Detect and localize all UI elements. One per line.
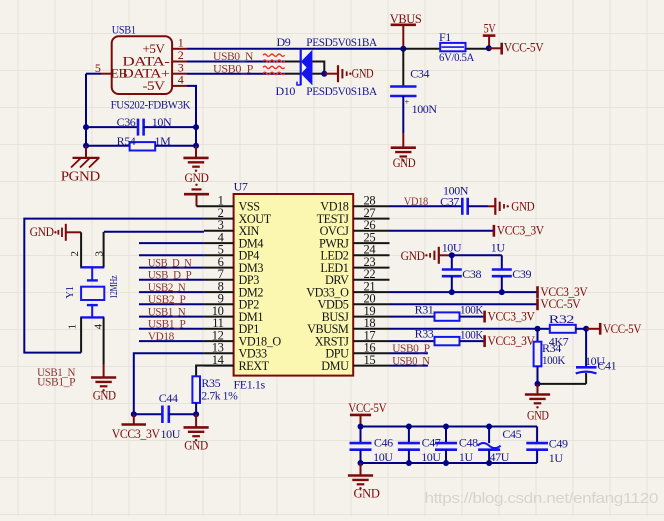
svg-text:VCC3_3V: VCC3_3V — [497, 223, 545, 238]
power VBUS — [390, 11, 422, 49]
svg-text:4: 4 — [178, 73, 184, 87]
junction bottom rail x408.9 — [406, 460, 412, 466]
fuse F1 6V/0.5A — [439, 30, 475, 64]
svg-text:U7: U7 — [234, 180, 248, 194]
svg-text:1U: 1U — [459, 450, 474, 464]
svg-text:C41: C41 — [597, 359, 616, 373]
svg-text:GND: GND — [401, 248, 425, 263]
net label USB1_N floating — [37, 365, 76, 379]
wire DP4 pin5 — [139, 254, 204, 256]
svg-text:GND: GND — [93, 387, 116, 402]
U7 pin 11 DP1 — [204, 316, 259, 336]
wire and net label VD18 — [139, 329, 204, 343]
chassis ground PGND — [61, 146, 101, 184]
U7 pin 17 XRSTJ — [315, 328, 390, 348]
svg-text:2: 2 — [69, 251, 81, 256]
junction C38 bottom — [449, 289, 455, 295]
wire VSS pin1 to ground — [197, 205, 234, 207]
net label USB0_N — [213, 49, 254, 63]
diode D9 PESD5V0S1BA — [277, 35, 378, 74]
op-amp U7 FE1.1s body — [234, 180, 354, 392]
capacitor C45 47U — [478, 427, 522, 464]
U7 pin 23 LED1 — [320, 255, 389, 275]
wire USB1 pin5 to left rail — [86, 74, 101, 146]
diode D10 PESD5V0S1BA — [276, 62, 378, 98]
svg-text:C48: C48 — [459, 436, 478, 450]
capacitor C48 1U — [435, 427, 478, 464]
svg-text:VCC-5V: VCC-5V — [504, 39, 544, 54]
svg-text:C36: C36 — [117, 115, 136, 129]
svg-text:GND: GND — [527, 407, 549, 422]
ground GND left of crystal — [30, 224, 82, 241]
U7 pin 1 VSS — [218, 194, 261, 214]
wire and net label USB_D_P — [139, 268, 204, 282]
junction C44 left — [131, 411, 137, 417]
svg-text:C34: C34 — [410, 66, 429, 80]
junction C38 top — [449, 252, 455, 258]
power port VCC3_3V pin19 — [485, 308, 536, 323]
ground GND below R34 — [525, 384, 550, 423]
U7 pin 27 TESTJ — [317, 206, 390, 226]
net label USB0_N pin15 — [392, 353, 430, 367]
wire cap bank bottom rail — [361, 462, 538, 464]
wire fuse F1 to 5V junction — [466, 48, 489, 50]
svg-text:FE1.1s: FE1.1s — [234, 378, 266, 392]
capacitor C34 100N — [390, 49, 437, 133]
svg-text:GND: GND — [393, 155, 416, 170]
svg-text:4: 4 — [93, 324, 105, 330]
ground GND right of C37 — [488, 198, 534, 215]
svg-text:C39: C39 — [512, 267, 531, 281]
wire USB0_P from USB1 pin3 to D10 — [187, 73, 301, 75]
resistor R35 2.7k 1% — [192, 376, 237, 414]
junction 5V node — [486, 45, 492, 51]
wire +5V rail from USB1 pin1 to VBUS junction — [187, 48, 403, 50]
watermark — [425, 490, 659, 507]
ground GND below C34 — [391, 133, 416, 170]
U7 pin 19 BUSJ — [322, 304, 390, 324]
svg-text:1: 1 — [66, 324, 78, 329]
svg-text:GND: GND — [30, 224, 54, 239]
wire USB0_N from USB1 pin2 to D9 — [187, 61, 301, 63]
svg-text:10U: 10U — [421, 450, 441, 464]
junction C44 right — [193, 411, 199, 417]
svg-text:15: 15 — [364, 353, 376, 367]
wire VD33 pin13 to C44 — [134, 353, 204, 414]
capacitor C39 1U — [491, 240, 532, 292]
svg-text:1U: 1U — [491, 240, 506, 254]
junction top rail x408.9 — [406, 424, 412, 430]
USB1 pin 2 (DATA-) — [172, 48, 187, 62]
ground GND inverted above U7 VSS — [184, 184, 209, 207]
wire pin18 VBUSM to R32 node — [390, 328, 538, 330]
U7 pin 24 LED2 — [320, 243, 389, 263]
capacitor C38 10U — [442, 240, 482, 292]
wire pin15 DMU — [390, 365, 428, 367]
junction R54 right — [193, 143, 199, 149]
capacitor C47 10U — [398, 427, 442, 464]
power VCC-5V cap bank — [348, 400, 387, 427]
svg-text:6V/0.5A: 6V/0.5A — [439, 50, 475, 64]
U7 pin 28 VD18 — [320, 194, 389, 214]
U7 pin 14 REXT — [204, 353, 270, 373]
junction R32 right node — [583, 326, 589, 332]
svg-text:10U: 10U — [373, 450, 393, 464]
ground GND right of diodes — [324, 65, 373, 82]
resistor R54 1M — [86, 134, 196, 151]
wire pin26 to VCC3_3V port — [390, 230, 494, 232]
svg-text:-5V: -5V — [143, 78, 166, 93]
resistor R32 4K7 — [538, 312, 587, 349]
U7 pin 20 VDD5 — [318, 292, 390, 312]
wire GND rail to C39 top — [452, 255, 502, 269]
U7 pin 7 DP3 — [204, 267, 259, 287]
power port VCC-5V pin20 — [538, 296, 582, 311]
svg-text:USB1_P: USB1_P — [37, 375, 76, 389]
wire D10 anode to GND — [312, 73, 324, 75]
power port VCC3_3V pin21 — [538, 284, 589, 299]
USB1 pin 3 (DATA+) — [172, 60, 187, 74]
svg-text:USB1: USB1 — [112, 23, 136, 37]
ground GND below right rail — [183, 146, 208, 185]
svg-text:3: 3 — [94, 251, 106, 257]
junction bottom rail x446 — [443, 460, 449, 466]
junction top rail x360.5 — [358, 424, 364, 430]
junction R32 left node — [535, 326, 541, 332]
svg-text:VD18: VD18 — [148, 329, 174, 343]
capacitor C49 1U — [526, 427, 568, 465]
ground GND below crystal — [91, 365, 116, 403]
svg-text:1U: 1U — [549, 451, 564, 465]
svg-text:10U: 10U — [161, 427, 181, 441]
wire and net label USB_D_N — [139, 255, 204, 269]
diode common cathode bar — [297, 49, 301, 85]
U7 pin 25 PWRJ — [319, 230, 390, 250]
U7 pin 22 DRV — [325, 267, 390, 287]
ERC marker on USB0_P — [263, 66, 285, 74]
svg-text:VCC-5V: VCC-5V — [540, 296, 581, 311]
svg-text:PESD5V0S1BA: PESD5V0S1BA — [306, 84, 377, 98]
U7 pin 13 VD33 — [204, 341, 267, 361]
wire VBUS junction to fuse F1 — [403, 48, 440, 50]
svg-text:100K: 100K — [460, 328, 484, 342]
capacitor C37 100N — [440, 183, 488, 214]
svg-text:D9: D9 — [277, 35, 291, 49]
wire pin20 to VCC-5V port — [390, 303, 538, 305]
USB1 pin 5 (shield) — [95, 61, 112, 75]
U7 pin 5 DP4 — [204, 243, 259, 263]
wire pin16 DPU — [390, 352, 428, 354]
junction bottom rail x489.1 — [486, 460, 492, 466]
junction bottom rail x360.5 — [358, 460, 364, 466]
crystal Y1 12MHz — [65, 267, 120, 317]
net label VD18 — [404, 194, 428, 208]
U7 pin 16 DPU — [325, 341, 389, 361]
svg-text:PGND: PGND — [61, 169, 101, 184]
svg-text:PESD5V0S1BA: PESD5V0S1BA — [306, 35, 377, 49]
ERC marker on USB0_N — [263, 54, 285, 62]
junction C36 right — [193, 124, 199, 130]
ground GND below R35 — [184, 414, 209, 452]
wire and net label USB2_N — [139, 280, 204, 294]
svg-text:R32: R32 — [549, 312, 575, 326]
wire and net label USB2_P — [139, 292, 204, 306]
junction VBUS node — [400, 46, 406, 52]
U7 pin 3 XIN — [204, 218, 260, 238]
power port VCC-5V top — [489, 39, 544, 54]
wire VD18 pin28 to C37 — [390, 205, 463, 207]
power port VCC3_3V pin17 — [485, 333, 536, 348]
wire C41 bottom to R34 bottom — [538, 383, 587, 385]
U7 pin 21 VD33_O — [306, 279, 389, 299]
resistor R34 100K — [534, 329, 566, 384]
wire REXT pin14 to R35 — [196, 366, 234, 377]
junction top rail x489.1 — [486, 424, 492, 430]
junction top rail x446 — [443, 424, 449, 430]
svg-text:F1: F1 — [439, 30, 451, 44]
resistor R31 100K — [390, 303, 484, 321]
power port VCC3_3V pin26 — [494, 223, 545, 238]
svg-text:USB0_N: USB0_N — [392, 353, 430, 367]
net label USB1_P floating — [37, 375, 76, 389]
svg-text:100N: 100N — [443, 183, 469, 197]
U7 pin 8 DM2 — [204, 279, 263, 299]
wire XIN to crystal pin3 — [104, 231, 204, 233]
capacitor C36 10N — [86, 115, 196, 136]
svg-text:VCC3_3V: VCC3_3V — [112, 426, 161, 441]
svg-text:EB: EB — [111, 66, 128, 81]
U7 pin 10 DM1 — [204, 304, 263, 324]
wire and net label USB1_P — [139, 317, 204, 331]
svg-text:VCC-5V: VCC-5V — [603, 321, 642, 336]
junction R54 left — [83, 143, 89, 149]
svg-text:GND: GND — [352, 66, 374, 81]
svg-text:5V: 5V — [484, 21, 496, 36]
svg-text:Y1: Y1 — [65, 286, 76, 298]
net label USB0_P — [213, 61, 254, 75]
svg-text:R33: R33 — [415, 327, 434, 341]
U7 pin 2 XOUT — [204, 206, 272, 226]
capacitor C44 10U — [134, 391, 196, 423]
USB1 pin 1 (+5V) — [172, 35, 187, 49]
wire cap bank top rail — [361, 426, 538, 428]
svg-text:100K: 100K — [542, 353, 566, 367]
ground GND cap bank — [348, 463, 380, 501]
crystal pin 1 — [66, 317, 81, 352]
svg-text:VCC3_3V: VCC3_3V — [488, 308, 536, 323]
U7 pin 9 DP2 — [204, 292, 259, 312]
svg-text:VD18: VD18 — [404, 194, 428, 208]
wire D9 anode to junction — [312, 62, 324, 74]
power port VCC3_3V below C44 — [112, 414, 181, 441]
svg-text:GND: GND — [184, 438, 208, 453]
U7 pin 6 DM3 — [204, 255, 263, 275]
wire USB1 pin4 to right rail — [187, 86, 196, 146]
svg-text:R31: R31 — [415, 303, 434, 317]
svg-text:GND: GND — [354, 486, 380, 501]
crystal pin 3 — [94, 232, 106, 267]
U7 pin 12 VD18_O — [204, 328, 281, 348]
svg-text:C46: C46 — [374, 436, 393, 450]
svg-text:C49: C49 — [549, 437, 568, 451]
junction C36 left — [83, 124, 89, 130]
svg-text:REXT: REXT — [239, 359, 270, 373]
svg-text:DMU: DMU — [321, 359, 349, 373]
junction C39 bottom — [499, 289, 505, 295]
crystal pin 4 — [93, 317, 105, 364]
power 5V — [483, 21, 496, 49]
U7 pin 26 OVCJ — [320, 218, 390, 238]
svg-text:100K: 100K — [460, 303, 484, 317]
U7 pin 18 VBUSM — [307, 316, 389, 336]
svg-text:USB0_P: USB0_P — [213, 61, 254, 75]
svg-text:https://blog.csdn.net/enfang11: https://blog.csdn.net/enfang1120 — [425, 490, 659, 507]
USB1 pin 4 (-5V) — [172, 73, 187, 87]
U7 pin 15 DMU — [321, 353, 389, 373]
ground GND feeding C38 C39 — [401, 247, 452, 264]
svg-text:FUS202-FDBW3K: FUS202-FDBW3K — [111, 98, 191, 112]
net label USB0_P pin16 — [392, 341, 430, 355]
wire pin21 rail to VCC3_3V port — [390, 291, 538, 293]
svg-text:C38: C38 — [462, 267, 481, 281]
capacitor C41 10U — [576, 329, 617, 384]
svg-text:VCC-5V: VCC-5V — [348, 400, 387, 415]
U7 pin 4 DM4 — [204, 230, 263, 250]
wire DM4 pin4 — [139, 242, 204, 244]
svg-text:C44: C44 — [159, 391, 178, 405]
svg-text:10U: 10U — [442, 240, 462, 254]
svg-text:C45: C45 — [502, 427, 521, 441]
svg-text:10N: 10N — [152, 115, 172, 129]
power port VCC-5V right of R32 — [586, 321, 642, 336]
junction diode common — [321, 71, 327, 77]
resistor R33 100K — [390, 327, 484, 346]
wire XOUT loop to crystal pin1 — [24, 219, 204, 353]
svg-text:47U: 47U — [490, 450, 510, 464]
svg-text:VCC3_3V: VCC3_3V — [488, 333, 536, 348]
svg-text:GND: GND — [511, 198, 534, 213]
connector USB1 body FUS202-FDBW3K — [111, 23, 191, 112]
svg-text:100N: 100N — [412, 102, 438, 116]
svg-text:2.7k 1%: 2.7k 1% — [201, 389, 237, 403]
svg-text:R54: R54 — [117, 134, 136, 148]
junction R34 bottom — [535, 381, 541, 387]
svg-text:D10: D10 — [276, 84, 296, 98]
svg-text:GND: GND — [185, 170, 209, 185]
capacitor C46 10U — [350, 427, 394, 464]
crystal pin 2 — [69, 232, 81, 267]
svg-text:12MHz: 12MHz — [109, 275, 120, 299]
wire and net label USB1_N — [139, 304, 204, 318]
svg-text:1M: 1M — [155, 134, 172, 148]
